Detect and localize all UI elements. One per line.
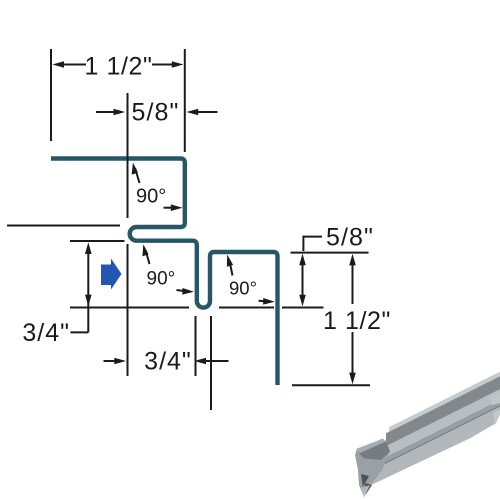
svg-text:5/8": 5/8" xyxy=(131,99,179,127)
main light face xyxy=(363,407,500,489)
svg-text:90°: 90° xyxy=(229,278,257,299)
dimension 1 1/2 right vertical xyxy=(352,258,354,304)
leader arrow right to channel leg xyxy=(177,290,185,291)
dimension 5/8 right vertical xyxy=(302,258,304,301)
extension line left (x=51) xyxy=(50,49,52,141)
dimension 3/4 inch left vertical xyxy=(87,250,89,332)
extension line y=225.5 far left xyxy=(7,225,120,227)
extension line y=385.3 bottom right xyxy=(292,384,370,386)
svg-text:5/8": 5/8" xyxy=(326,224,374,252)
extension line y=307.5 (three segments) xyxy=(70,307,189,309)
end cut: top flange end face xyxy=(356,439,386,453)
dimension 5/8 inch top xyxy=(96,111,218,113)
leader arrow up to channel top xyxy=(230,261,233,276)
svg-text:3/4": 3/4" xyxy=(144,348,192,376)
profile outline (teal formed sheet-metal trim) xyxy=(51,159,278,386)
svg-text:1 1/2": 1 1/2" xyxy=(323,307,391,335)
dimension 3/4 inch bottom xyxy=(104,360,229,362)
arrowhead left, dim 3/4 bottom xyxy=(114,358,126,365)
end cut: base cap xyxy=(355,441,390,498)
hem notch dark wedge lower xyxy=(365,483,372,494)
svg-text:3/4": 3/4" xyxy=(22,319,70,347)
arrowhead right, dim 3/4 bottom xyxy=(194,358,206,365)
web dark band xyxy=(386,376,500,446)
arrowhead up, dim 5/8 right xyxy=(299,254,306,266)
arrowhead down, dim 3/4 left xyxy=(85,295,92,307)
arrowhead down, dim 5/8 right xyxy=(299,295,306,307)
arrowhead up, dim 3/4 left xyxy=(85,242,92,254)
medium band xyxy=(372,400,500,469)
svg-text:90°: 90° xyxy=(147,269,176,290)
right side: extension line y=252.6 xyxy=(291,252,369,254)
3D rendering of extruded profile, bottom-right xyxy=(355,372,500,497)
arrowhead left, dim 1 1/2 top xyxy=(52,61,64,68)
light band xyxy=(376,389,500,461)
hem notch dark wedge upper xyxy=(361,474,369,487)
extension line right (x=184.8) xyxy=(184,49,186,152)
arrowhead left, dim 5/8 top xyxy=(114,109,126,116)
far-end hem tab (top right curl) xyxy=(458,380,484,407)
extension line center (x=127.5) upper part xyxy=(127,93,129,218)
svg-text:90°: 90° xyxy=(136,186,166,208)
bottom tip light face xyxy=(361,485,370,497)
dimension 1 1/2 inch top xyxy=(60,64,176,66)
blue direction arrow xyxy=(101,259,122,290)
extension line center lower part xyxy=(127,244,129,376)
top flange top surface strip xyxy=(389,372,500,432)
end cut: flange underside dark face xyxy=(359,442,390,461)
extension lines below bottom hook xyxy=(195,316,197,376)
hairline shadow xyxy=(370,405,500,472)
right end step faces xyxy=(489,392,500,405)
leader arrow right to vertical leg xyxy=(164,207,173,209)
svg-text:1 1/2": 1 1/2" xyxy=(84,53,152,81)
arrowhead down, dim 1 1/2 right xyxy=(349,373,356,385)
arrowhead up, dim 1 1/2 right xyxy=(349,254,356,266)
leader for 5/8 right xyxy=(303,236,322,238)
leader arrow up to first bend xyxy=(135,168,140,183)
arrowhead right, dim 5/8 top xyxy=(187,109,199,116)
leader arrow up to second bend xyxy=(146,250,150,264)
arrowhead right, dim 1 1/2 top xyxy=(172,61,184,68)
extension line y=241 left xyxy=(70,240,125,242)
leader arrow right to end leg xyxy=(259,300,267,303)
